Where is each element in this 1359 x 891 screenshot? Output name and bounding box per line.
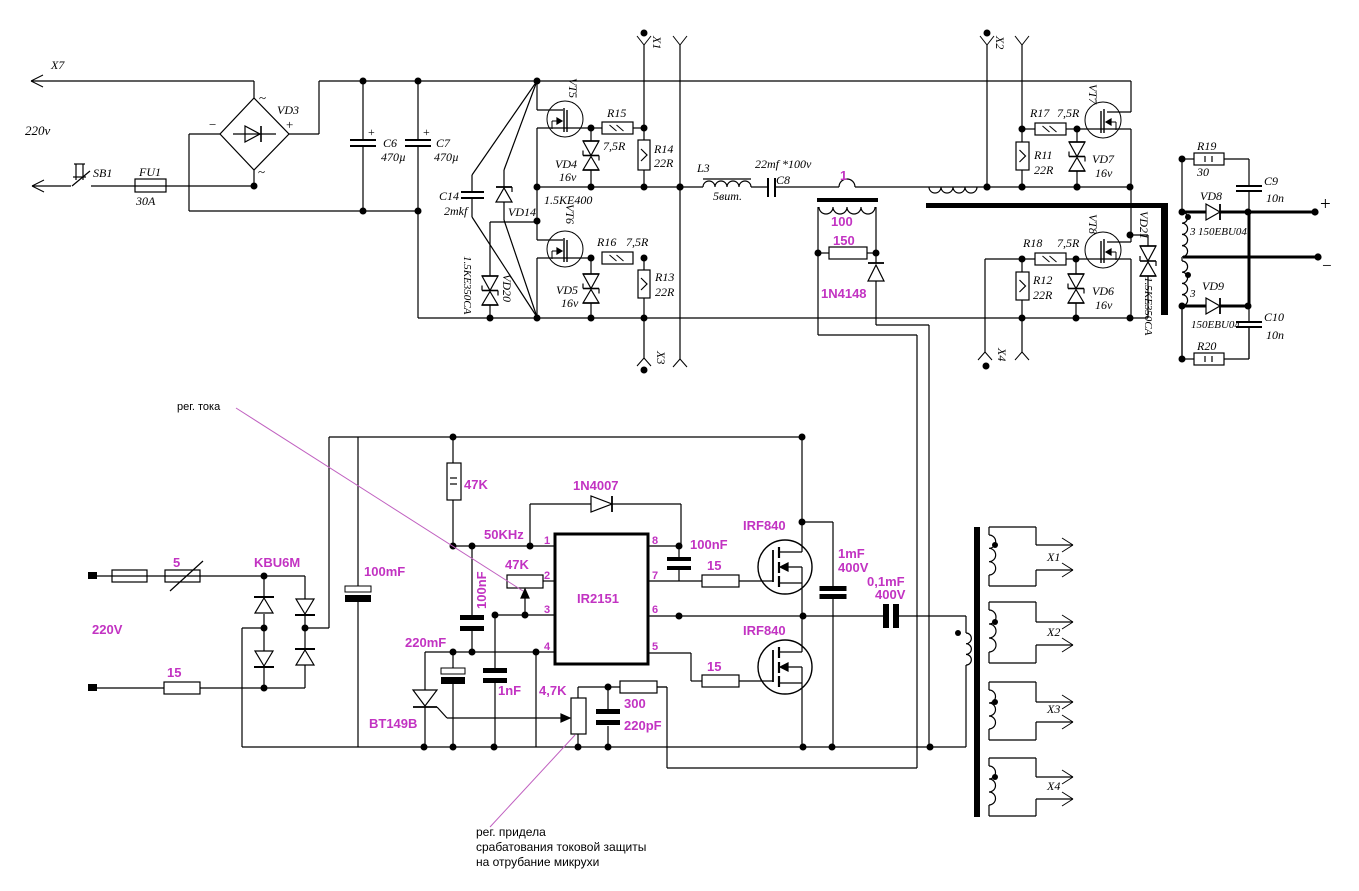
- junction: [588, 125, 595, 132]
- svg-text:+: +: [423, 125, 430, 139]
- svg-text:~: ~: [259, 90, 266, 105]
- wire top rail: [319, 80, 1131, 82]
- svg-text:C7: C7: [436, 136, 451, 150]
- svg-text:VT5: VT5: [566, 78, 580, 98]
- resistor R13 22R: [643, 258, 645, 270]
- svg-text:22R: 22R: [1034, 163, 1054, 177]
- main transformer primary: [929, 187, 977, 193]
- wire: [32, 185, 71, 187]
- TVS VD21 1.5KE350CA: [1131, 234, 1148, 236]
- svg-text:1.5KE400: 1.5KE400: [544, 193, 592, 207]
- svg-text:R19: R19: [1196, 139, 1216, 153]
- svg-text:16v: 16v: [1095, 166, 1113, 180]
- wire: [1130, 259, 1132, 318]
- svg-text:10n: 10n: [1266, 191, 1284, 205]
- svg-text:R17: R17: [1029, 106, 1050, 120]
- fuse FU1 30A: [135, 179, 166, 192]
- svg-text:3: 3: [1189, 226, 1196, 238]
- wire X1b/X3b: [679, 45, 681, 359]
- svg-text:X4: X4: [995, 347, 1009, 361]
- MOSFET IRF840 (low side): [758, 640, 812, 694]
- capacitor 220mF: [452, 652, 454, 668]
- diode 1N4007: [529, 504, 531, 546]
- capacitor 1nF: [494, 615, 496, 668]
- svg-text:X1: X1: [650, 35, 664, 49]
- svg-text:1.5KE350CA: 1.5KE350CA: [1142, 277, 1154, 336]
- svg-text:рег. придела: рег. придела: [476, 825, 546, 839]
- svg-text:C14: C14: [439, 189, 459, 203]
- capacitor 100nF (bootstrap): [678, 546, 680, 557]
- potentiometer 4,7K: [571, 698, 586, 734]
- svg-text:7: 7: [652, 570, 658, 582]
- svg-text:47K: 47K: [464, 477, 488, 492]
- svg-text:7,5R: 7,5R: [1057, 106, 1080, 120]
- wire X3a: [643, 318, 645, 358]
- junction: [487, 315, 494, 322]
- svg-text:100: 100: [831, 214, 853, 229]
- svg-text:FU1: FU1: [138, 165, 161, 179]
- svg-text:470µ: 470µ: [434, 150, 459, 164]
- junction: [588, 255, 595, 262]
- input terminal top: [88, 572, 97, 579]
- resistor R11 22R: [1021, 129, 1023, 142]
- output transformer core: [974, 527, 980, 817]
- junction: [534, 218, 541, 225]
- wire X4a: [984, 259, 986, 352]
- VT8 source lead: [1076, 258, 1131, 260]
- wire C14 bottom to rail: [472, 217, 537, 317]
- VT7 source lead: [1077, 128, 1131, 130]
- wire bottom rail upper circuit: [418, 317, 1148, 319]
- capacitor 100mF: [357, 437, 359, 586]
- TVS VD4 16v: [590, 128, 592, 141]
- diode VD9 150EBU04: [1182, 305, 1206, 308]
- potentiometer 47K: [507, 575, 543, 588]
- svg-text:VD21: VD21: [1137, 211, 1151, 239]
- capacitor 0,1mF 400V: [883, 604, 889, 628]
- resistor R17 7,5R: [1022, 128, 1035, 130]
- mid rail (half-bridge output): [537, 186, 703, 188]
- svg-text:+: +: [368, 125, 375, 139]
- capacitor C6 470u: [362, 81, 364, 139]
- svg-text:BT149B: BT149B: [369, 716, 417, 731]
- svg-text:30: 30: [1196, 165, 1209, 179]
- wire bridge minus: [189, 133, 220, 135]
- svg-text:220v: 220v: [25, 123, 51, 138]
- output transformer primary: [965, 616, 967, 633]
- secondary winding X4: [989, 757, 1036, 759]
- svg-text:R13: R13: [654, 270, 674, 284]
- wire CT return to 300 resistor: [817, 253, 819, 335]
- svg-text:1mF: 1mF: [838, 546, 865, 561]
- svg-text:22mf *100v: 22mf *100v: [755, 157, 812, 171]
- wire X1a: [643, 45, 645, 128]
- svg-text:X3: X3: [1046, 702, 1060, 716]
- connector X1: [641, 30, 648, 37]
- wire source/drain: [801, 567, 803, 652]
- svg-text:3: 3: [544, 604, 550, 616]
- svg-text:1N4148: 1N4148: [821, 286, 867, 301]
- svg-text:6: 6: [652, 604, 658, 616]
- wire VT6 source to bottom rail: [536, 258, 538, 318]
- wire top rail left: [31, 80, 254, 82]
- junction: [641, 184, 648, 191]
- svg-text:7,5R: 7,5R: [626, 235, 649, 249]
- svg-text:VD3: VD3: [277, 103, 299, 117]
- svg-text:VD7: VD7: [1092, 152, 1115, 166]
- junction: [415, 78, 422, 85]
- wire bottom rail lower circuit: [242, 746, 966, 748]
- resistor R15 7,5R: [591, 127, 602, 129]
- VT5 source lead: [537, 127, 591, 129]
- secondary winding X3: [989, 681, 1036, 683]
- svg-text:30A: 30A: [135, 194, 156, 208]
- current transformer secondary 100 turns: [819, 207, 875, 214]
- junction: [641, 255, 648, 262]
- svg-text:50KHz: 50KHz: [484, 527, 524, 542]
- svg-text:16v: 16v: [561, 296, 579, 310]
- svg-text:на отрубание микрухи: на отрубание микрухи: [476, 855, 599, 869]
- wire source to gnd: [801, 667, 803, 747]
- svg-text:X7: X7: [50, 58, 65, 72]
- fuse (input): [112, 570, 147, 582]
- svg-text:C6: C6: [383, 136, 397, 150]
- svg-text:−: −: [209, 117, 216, 132]
- bridge rectifier VD3: [220, 98, 289, 170]
- resistor R20: [1181, 306, 1183, 359]
- transistor VT8: [1130, 188, 1132, 235]
- svg-text:150EBU04: 150EBU04: [1198, 226, 1247, 238]
- svg-text:R11: R11: [1033, 148, 1052, 162]
- svg-text:VD8: VD8: [1200, 189, 1222, 203]
- wire bridge bottom: [253, 170, 255, 186]
- svg-text:VD14: VD14: [508, 205, 536, 219]
- thyristor BT149B: [413, 690, 437, 706]
- junction: [415, 208, 422, 215]
- svg-text:R18: R18: [1022, 236, 1042, 250]
- connector X7: [31, 75, 43, 81]
- transistor VT7: [1130, 81, 1132, 112]
- svg-text:1: 1: [840, 168, 847, 183]
- secondary winding X1: [989, 526, 1036, 528]
- pin4 node: [425, 651, 555, 653]
- polarity dot: [1185, 272, 1191, 278]
- junction: [641, 315, 648, 322]
- svg-text:VD5: VD5: [556, 283, 578, 297]
- diode VD8 150EBU04: [1182, 211, 1206, 214]
- svg-text:100mF: 100mF: [364, 564, 405, 579]
- wire to C14 top: [472, 81, 537, 175]
- junction midpoint: [534, 184, 541, 191]
- svg-text:C10: C10: [1264, 310, 1284, 324]
- svg-text:X4: X4: [1046, 779, 1060, 793]
- svg-text:VT7: VT7: [1086, 84, 1100, 105]
- pin1 node: [453, 545, 555, 547]
- inductor L3 5 turns: [703, 181, 751, 187]
- wire VT5 source to midpoint rail: [536, 128, 538, 187]
- current transformer T1 winding 1: [839, 179, 855, 187]
- wire AC in bottom: [97, 687, 164, 689]
- svg-text:150: 150: [833, 233, 855, 248]
- varistor 5: [165, 570, 200, 582]
- svg-text:VD9: VD9: [1202, 279, 1224, 293]
- resistor R14 22R: [643, 128, 645, 140]
- svg-text:3: 3: [1189, 288, 1196, 300]
- svg-text:220V: 220V: [92, 622, 123, 637]
- svg-text:R15: R15: [606, 106, 626, 120]
- capacitor C7 470u: [417, 81, 419, 139]
- junction VT8 drain / VD21: [1127, 232, 1134, 239]
- svg-text:4,7K: 4,7K: [539, 683, 567, 698]
- svg-text:C8: C8: [776, 173, 790, 187]
- svg-text:IRF840: IRF840: [743, 518, 786, 533]
- resistor R16 7,5R: [602, 252, 633, 264]
- svg-text:R12: R12: [1032, 273, 1052, 287]
- junction: [641, 125, 648, 132]
- svg-text:300: 300: [624, 696, 646, 711]
- wire: [318, 81, 320, 134]
- junction: [360, 208, 367, 215]
- secondary winding X2: [989, 601, 1036, 603]
- junction: [677, 184, 684, 191]
- pin8 node: [648, 545, 679, 547]
- svg-text:4: 4: [544, 641, 551, 653]
- svg-text:150EBU04: 150EBU04: [1191, 319, 1240, 331]
- svg-text:IRF840: IRF840: [743, 623, 786, 638]
- minus output: [1183, 256, 1318, 259]
- wire VD20 to midpoint: [490, 221, 538, 223]
- resistor 15 (input): [164, 682, 200, 694]
- wire drain bus: [801, 437, 803, 552]
- svg-text:R20: R20: [1196, 339, 1216, 353]
- diode VD14 1.5KE400: [503, 170, 505, 187]
- wire to VD14 top: [504, 81, 537, 170]
- wire X4b: [1021, 318, 1023, 352]
- svg-text:100nF: 100nF: [690, 537, 728, 552]
- wire pin4 gnd: [535, 652, 537, 747]
- TVS VD7 16v: [1076, 129, 1078, 142]
- diode 1N4148: [875, 253, 877, 263]
- svg-text:5вит.: 5вит.: [713, 189, 742, 203]
- svg-text:~: ~: [258, 164, 265, 179]
- resistor R12 22R: [1021, 259, 1023, 272]
- resistor R19 30: [1182, 158, 1194, 160]
- input terminal bottom: [88, 684, 97, 691]
- wire VD14 bottom to rail: [504, 220, 537, 317]
- svg-text:R14: R14: [653, 142, 673, 156]
- svg-text:IR2151: IR2151: [577, 591, 619, 606]
- svg-text:1.5KE350CA: 1.5KE350CA: [461, 256, 473, 315]
- pin6 node: [648, 615, 883, 617]
- svg-text:5: 5: [652, 641, 658, 653]
- wire bridge plus to top rail: [305, 627, 329, 629]
- svg-text:рег. тока: рег. тока: [177, 401, 221, 413]
- svg-text:1: 1: [544, 535, 550, 547]
- junction: [360, 78, 367, 85]
- svg-text:47K: 47K: [505, 557, 529, 572]
- junction: [534, 315, 541, 322]
- annotation current limit: [490, 735, 575, 827]
- polarity dot: [955, 630, 961, 636]
- svg-text:+: +: [1320, 194, 1331, 215]
- capacitor 220pF: [607, 687, 609, 709]
- svg-text:16v: 16v: [1095, 298, 1113, 312]
- svg-text:R16: R16: [596, 235, 616, 249]
- svg-text:100nF: 100nF: [474, 571, 489, 609]
- svg-text:срабатования токовой защиты: срабатования токовой защиты: [476, 840, 646, 854]
- TVS VD6 16v: [1075, 259, 1077, 274]
- pin7 gate drive high: [648, 580, 702, 582]
- capacitor C14 2mkf: [471, 175, 473, 192]
- resistor 300: [578, 686, 620, 688]
- connector X2: [984, 30, 991, 37]
- svg-text:VT8: VT8: [1086, 214, 1100, 234]
- switch SB1: [32, 180, 44, 186]
- IC IR2151: [555, 534, 648, 664]
- svg-text:X2: X2: [1046, 625, 1060, 639]
- svg-text:470µ: 470µ: [381, 150, 406, 164]
- svg-text:VD6: VD6: [1092, 284, 1114, 298]
- svg-text:7,5R: 7,5R: [603, 139, 626, 153]
- svg-text:C9: C9: [1264, 174, 1278, 188]
- svg-text:KBU6M: KBU6M: [254, 555, 300, 570]
- pin3 node: [495, 614, 555, 616]
- svg-text:2: 2: [544, 570, 550, 582]
- capacitor C10 10n: [1248, 306, 1250, 322]
- svg-text:400V: 400V: [875, 587, 906, 602]
- wire bridge minus to bottom rail: [242, 627, 264, 629]
- transformer core bars: [926, 203, 1165, 208]
- wire X2b: [1021, 45, 1023, 129]
- svg-text:X2: X2: [993, 35, 1007, 49]
- svg-text:VD4: VD4: [555, 157, 577, 171]
- svg-text:2mkf: 2mkf: [444, 204, 469, 218]
- svg-text:22R: 22R: [654, 156, 674, 170]
- svg-text:SB1: SB1: [93, 166, 112, 180]
- plus bus: [1248, 212, 1251, 306]
- wire X2a: [986, 45, 988, 187]
- wire to lower circuit: [928, 325, 930, 747]
- svg-text:X1: X1: [1046, 550, 1060, 564]
- svg-text:−: −: [1322, 256, 1332, 275]
- output secondary winding 3 turns (top): [1181, 159, 1183, 212]
- junction: [1127, 184, 1134, 191]
- wire AC in top: [97, 575, 264, 577]
- svg-text:16v: 16v: [559, 170, 577, 184]
- svg-text:220mF: 220mF: [405, 635, 446, 650]
- junction VT5 drain node: [534, 78, 541, 85]
- MOSFET IRF840 (high side): [758, 540, 812, 594]
- svg-text:15: 15: [167, 665, 181, 680]
- wire negative rail: [189, 210, 418, 212]
- pin5 gate drive low: [648, 652, 691, 654]
- capacitor 1mF 400V: [802, 521, 833, 523]
- svg-text:7,5R: 7,5R: [1057, 236, 1080, 250]
- capacitor C8 22mf*100v: [767, 178, 769, 197]
- svg-text:10n: 10n: [1266, 328, 1284, 342]
- junction: [588, 184, 595, 191]
- svg-text:22R: 22R: [655, 285, 675, 299]
- polarity dot: [1185, 214, 1191, 220]
- junction: [588, 315, 595, 322]
- VT6 source lead: [537, 257, 591, 259]
- svg-text:8: 8: [652, 535, 658, 547]
- wire to bridge bottom: [91, 185, 253, 187]
- svg-text:22R: 22R: [1033, 288, 1053, 302]
- svg-text:L3: L3: [696, 161, 710, 175]
- resistor 47K (supply): [450, 434, 457, 441]
- svg-text:VT6: VT6: [563, 204, 577, 224]
- capacitor C9 10n: [1248, 159, 1250, 186]
- wire bridge plus: [289, 133, 319, 135]
- svg-text:X3: X3: [654, 350, 668, 364]
- resistor 150: [818, 252, 829, 254]
- svg-text:5: 5: [173, 555, 180, 570]
- wire to bridge top: [253, 81, 255, 98]
- svg-text:15: 15: [707, 558, 721, 573]
- svg-text:400V: 400V: [838, 560, 869, 575]
- svg-text:VD20: VD20: [500, 274, 514, 302]
- TVS VD5 16v: [590, 258, 592, 274]
- svg-text:1N4007: 1N4007: [573, 478, 619, 493]
- svg-text:15: 15: [707, 659, 721, 674]
- wire: [188, 134, 190, 211]
- junction bridge-AC2: [251, 183, 258, 190]
- resistor R18 7,5R: [985, 258, 1035, 260]
- wire top rail lower circuit: [329, 436, 802, 438]
- svg-text:+: +: [286, 117, 293, 132]
- svg-text:220pF: 220pF: [624, 718, 662, 733]
- svg-text:1nF: 1nF: [498, 683, 521, 698]
- wire: [1130, 129, 1132, 188]
- capacitor 100nF (timing): [471, 546, 473, 615]
